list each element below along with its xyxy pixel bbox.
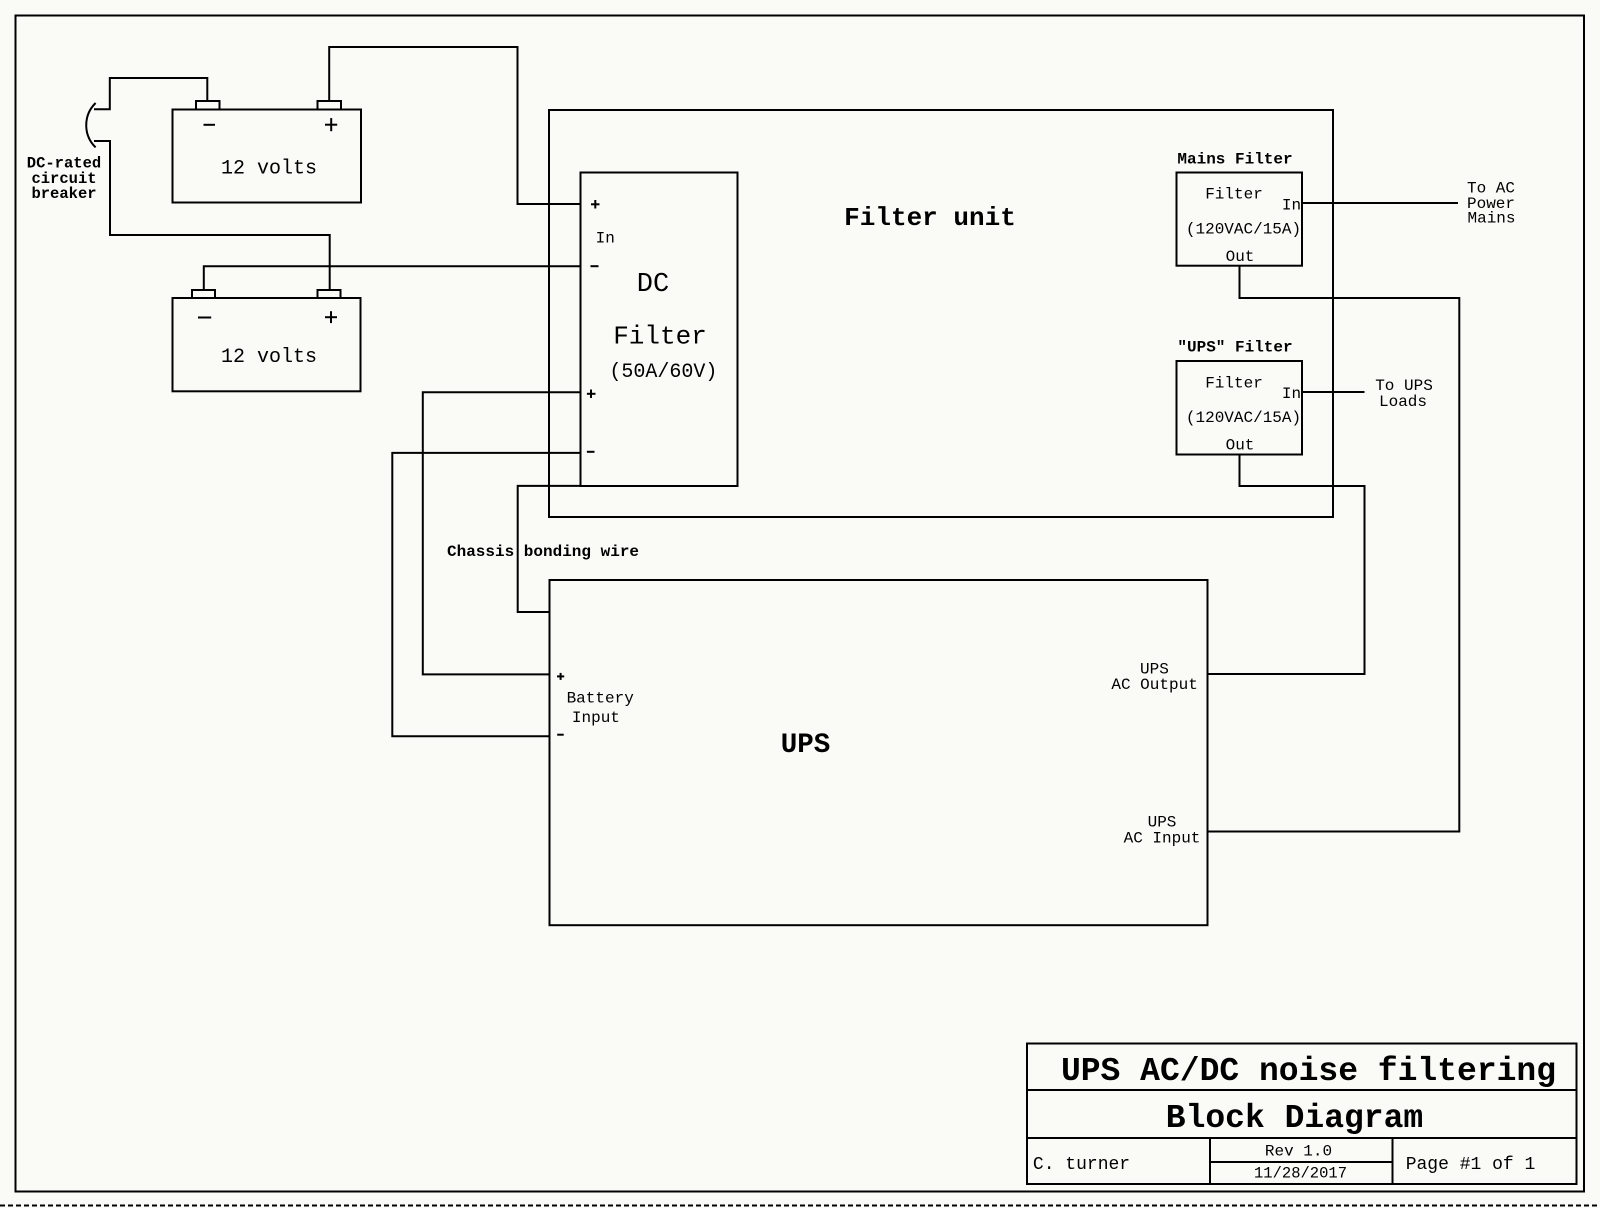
svg-text:12 volts: 12 volts (221, 346, 317, 369)
DC filter pin + (input) (591, 203, 600, 205)
wire battery B1 negative to circuit breaker (94, 78, 207, 109)
battery B1 positive terminal post (318, 101, 342, 110)
DC filter pin + (output) (587, 393, 596, 395)
wire UPS filter In to UPS loads (1302, 377, 1433, 411)
chassis bonding wire (447, 486, 639, 612)
svg-text:C. turner: C. turner (1033, 1155, 1130, 1175)
svg-text:Battery: Battery (567, 690, 635, 708)
battery B2 negative terminal post (192, 290, 215, 298)
svg-text:UPS AC/DC noise filtering: UPS AC/DC noise filtering (1061, 1053, 1556, 1090)
wire mains filter Out to UPS AC input (1208, 266, 1460, 832)
svg-text:In: In (1282, 385, 1301, 403)
DC filter pin - (output) (587, 451, 595, 453)
svg-text:Out: Out (1226, 248, 1255, 266)
battery B1 minus sign (204, 124, 216, 126)
svg-text:11/28/2017: 11/28/2017 (1254, 1165, 1347, 1183)
battery B1 plus sign (325, 124, 337, 126)
svg-text:(120VAC/15A): (120VAC/15A) (1186, 409, 1301, 427)
battery B2 (12 volts) (173, 290, 361, 391)
battery B1 (12 volts) (173, 101, 362, 203)
svg-text:Filter: Filter (1205, 186, 1263, 204)
svg-text:Filter unit: Filter unit (844, 203, 1016, 233)
svg-text:Page #1 of 1: Page #1 of 1 (1406, 1155, 1536, 1175)
svg-text:Block Diagram: Block Diagram (1166, 1100, 1423, 1137)
svg-text:(120VAC/15A): (120VAC/15A) (1186, 221, 1301, 239)
wire DC filter + out to UPS battery input + (423, 392, 581, 674)
wire battery B1 positive to DC filter + In (329, 47, 580, 204)
DC filter pin - (input) (591, 265, 599, 267)
svg-text:Chassis bonding wire: Chassis bonding wire (447, 543, 639, 561)
svg-text:Filter: Filter (1205, 375, 1263, 393)
svg-text:Mains Filter: Mains Filter (1177, 150, 1292, 168)
battery B2 positive terminal post (318, 290, 341, 298)
wire UPS filter Out to UPS AC output (1208, 455, 1365, 675)
svg-text:Loads: Loads (1379, 393, 1427, 411)
svg-text:AC Output: AC Output (1111, 676, 1197, 694)
wire DC filter - out to UPS battery input - (392, 453, 580, 736)
svg-text:Filter: Filter (613, 322, 707, 352)
svg-text:breaker: breaker (31, 185, 96, 203)
filter unit enclosure (549, 110, 1333, 517)
svg-text:Out: Out (1226, 437, 1255, 455)
svg-text:(50A/60V): (50A/60V) (609, 361, 717, 384)
battery B1 negative terminal post (196, 101, 220, 110)
battery B2 minus sign (198, 317, 211, 319)
svg-text:12 volts: 12 volts (221, 158, 317, 181)
svg-text:Rev 1.0: Rev 1.0 (1265, 1143, 1332, 1161)
wire battery B2 negative to DC filter - In (204, 266, 581, 290)
UPS filter (120VAC/15A) (1177, 339, 1303, 455)
mains filter (120VAC/15A) (1177, 150, 1303, 266)
wire mains filter In to AC power mains (1302, 180, 1516, 228)
wire circuit breaker to battery B2 positive (94, 141, 330, 290)
svg-text:AC Input: AC Input (1124, 830, 1201, 848)
svg-text:Mains: Mains (1467, 210, 1515, 228)
DC filter (50A/60V) (581, 173, 738, 487)
UPS unit (550, 580, 1208, 925)
svg-text:In: In (596, 230, 615, 248)
UPS battery input pin - (557, 734, 564, 736)
svg-text:"UPS" Filter: "UPS" Filter (1177, 339, 1292, 357)
circuit breaker CB1 (DC-rated) (27, 103, 101, 203)
svg-text:Input: Input (572, 709, 620, 727)
UPS battery input pin + (557, 675, 564, 677)
svg-text:In: In (1282, 197, 1301, 215)
battery B2 plus sign (325, 316, 337, 318)
svg-text:UPS: UPS (781, 730, 831, 761)
title block (1027, 1044, 1577, 1185)
svg-text:DC: DC (637, 270, 669, 300)
